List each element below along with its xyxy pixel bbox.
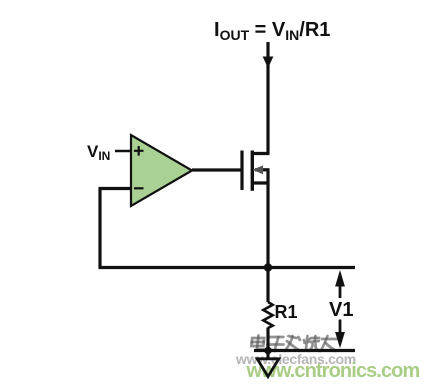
svg-text:VIN: VIN — [87, 142, 110, 163]
svg-text:V1: V1 — [329, 299, 353, 321]
svg-text:IOUT = VIN/R1: IOUT = VIN/R1 — [214, 19, 330, 43]
svg-text:R1: R1 — [275, 302, 298, 322]
